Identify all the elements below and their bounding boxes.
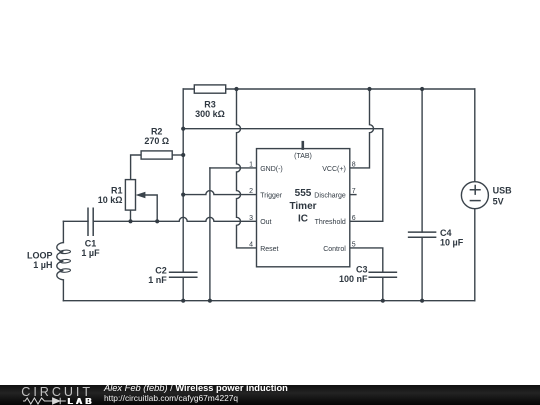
wire vcc pin 8 (hops over threshold wire) <box>350 89 374 168</box>
wire C1 right to pin 3 (hops over B and C) <box>93 217 256 221</box>
capacitor C1 plates <box>88 208 93 235</box>
wire USB branch <box>474 89 476 301</box>
logo symbol resistor+diode <box>23 397 67 405</box>
potentiometer R1 body <box>125 180 135 211</box>
svg-text:Reset: Reset <box>260 246 278 253</box>
svg-text:C3: C3 <box>356 265 368 275</box>
wire trigger pin 2 (hops over C) <box>183 191 256 195</box>
potentiometer R1 wiper arrow <box>136 192 146 199</box>
svg-text:5: 5 <box>352 241 356 248</box>
svg-text:270 Ω: 270 Ω <box>144 136 169 146</box>
svg-text:(TAB): (TAB) <box>294 153 312 160</box>
voltage source minus sign <box>470 200 480 202</box>
wire C4 branch <box>421 89 423 301</box>
logo CIRCUIT <box>21 385 93 399</box>
svg-text:4: 4 <box>249 241 253 248</box>
resistor R3 body <box>194 85 225 93</box>
node dot top C4 <box>420 87 424 91</box>
svg-text:IC: IC <box>298 213 308 224</box>
svg-text:100 nF: 100 nF <box>339 274 368 284</box>
svg-text:555: 555 <box>295 188 312 199</box>
wire threshold (pin 6) <box>183 129 383 222</box>
555 IC tab stub <box>301 142 304 148</box>
svg-text:R3: R3 <box>204 100 216 110</box>
wire control pin 5 to C3 <box>350 248 383 301</box>
node dot R1 bottom <box>128 219 132 223</box>
svg-text:8: 8 <box>352 161 356 168</box>
node dot B R2 <box>181 153 185 157</box>
svg-text:2: 2 <box>249 188 253 195</box>
attribution line 2 <box>104 393 238 403</box>
wire gnd pin 1 <box>210 167 257 169</box>
node dot B trigger <box>181 193 185 197</box>
svg-text:10 kΩ: 10 kΩ <box>98 195 123 205</box>
node dot B threshold <box>181 127 185 131</box>
wire discharge stub pin 7 <box>350 194 356 196</box>
voltage source plus sign <box>470 186 480 195</box>
svg-text:Trigger: Trigger <box>260 193 283 200</box>
voltage source USB circle <box>461 182 488 209</box>
wire R2 right <box>172 154 183 156</box>
node B vertical (R3 left / C2 top node) <box>182 89 184 301</box>
logo LAB <box>68 396 95 405</box>
capacitor C3 plates <box>369 272 396 277</box>
attribution line 1 <box>104 383 288 393</box>
svg-text:3: 3 <box>249 215 253 222</box>
footer bar <box>0 385 540 405</box>
wire R1 bottom <box>130 210 132 221</box>
node dot bottom B <box>181 299 185 303</box>
svg-text:Control: Control <box>323 246 346 253</box>
svg-text:GND(-): GND(-) <box>260 166 283 173</box>
svg-text:7: 7 <box>352 188 356 195</box>
wire R1 wiper <box>145 195 158 221</box>
svg-text:Discharge: Discharge <box>314 193 346 200</box>
svg-text:10 µF: 10 µF <box>440 237 464 247</box>
node C vertical (gnd) <box>209 168 211 301</box>
node dot top A <box>234 87 238 91</box>
svg-text:VCC(+): VCC(+) <box>322 166 346 173</box>
svg-text:6: 6 <box>352 215 356 222</box>
svg-text:USB: USB <box>493 185 513 195</box>
wire bottom rail <box>63 300 474 302</box>
capacitor C2 plates <box>170 272 197 277</box>
wire R2 left to R1 top <box>131 155 142 180</box>
node dot bottom C3 <box>381 299 385 303</box>
capacitor C4 plates <box>409 232 436 237</box>
wire loop top / C1 left <box>63 220 88 222</box>
wire loop left <box>62 221 64 300</box>
555 IC U1 box <box>257 149 350 267</box>
svg-text:5V: 5V <box>493 196 504 206</box>
svg-text:C2: C2 <box>155 265 167 275</box>
node dot bottom C4 <box>420 299 424 303</box>
svg-text:C1: C1 <box>85 239 97 249</box>
node A vertical (reset, hops over 4 wires) <box>237 89 257 248</box>
svg-text:1 µF: 1 µF <box>81 248 100 258</box>
svg-text:1 nF: 1 nF <box>148 275 167 285</box>
svg-text:R1: R1 <box>111 185 123 195</box>
svg-text:LOOP: LOOP <box>27 250 53 260</box>
node dot wiper <box>155 219 159 223</box>
svg-text:R2: R2 <box>151 127 163 137</box>
svg-text:Threshold: Threshold <box>315 219 346 226</box>
resistor R2 body <box>141 151 172 159</box>
node dot top vcc <box>367 87 371 91</box>
wire top rail <box>183 88 475 90</box>
node dot bottom C <box>208 299 212 303</box>
svg-text:1 µH: 1 µH <box>33 260 52 270</box>
svg-text:300 kΩ: 300 kΩ <box>195 109 225 119</box>
inductor LOOP coil <box>57 243 71 280</box>
svg-text:Out: Out <box>260 219 271 226</box>
svg-text:1: 1 <box>249 161 253 168</box>
svg-text:Timer: Timer <box>289 201 316 212</box>
